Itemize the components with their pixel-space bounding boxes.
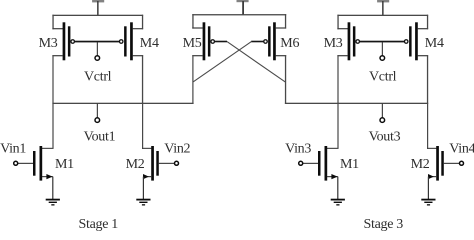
svg-text:Vin4: Vin4	[449, 142, 474, 157]
svg-text:Vin2: Vin2	[164, 142, 190, 157]
svg-text:Stage 3: Stage 3	[364, 217, 404, 232]
svg-text:Vin1: Vin1	[0, 142, 26, 157]
svg-text:Vout1: Vout1	[84, 129, 116, 144]
svg-text:Vin3: Vin3	[285, 142, 311, 157]
svg-text:M6: M6	[280, 36, 299, 51]
svg-text:M5: M5	[183, 36, 202, 51]
svg-text:Vout3: Vout3	[369, 129, 401, 144]
svg-text:Stage 1: Stage 1	[79, 217, 119, 232]
